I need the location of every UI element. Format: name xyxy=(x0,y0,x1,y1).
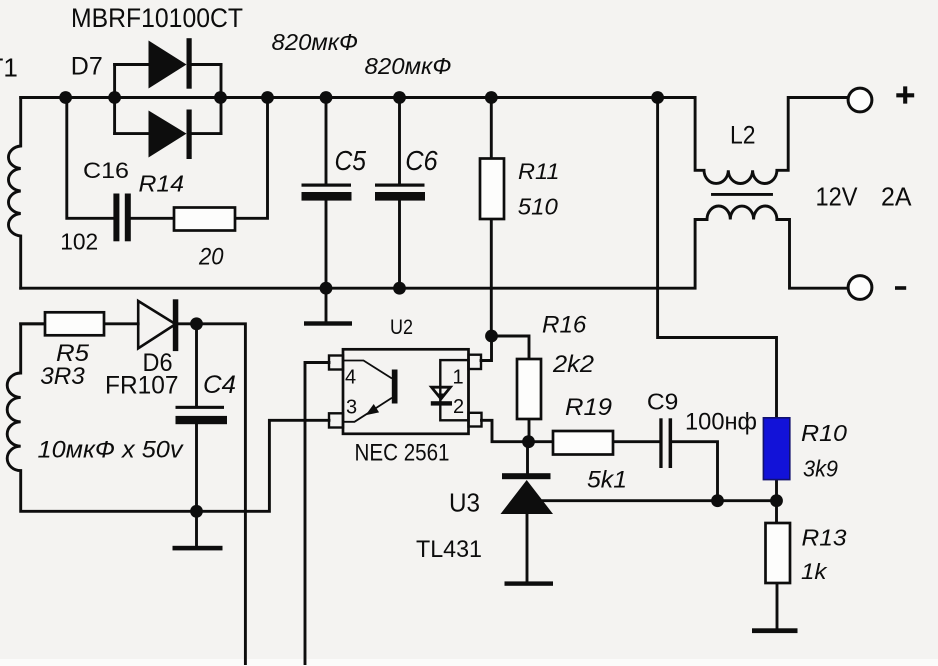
svg-text:NEC 2561: NEC 2561 xyxy=(355,439,450,466)
node bottom rail at C6 xyxy=(393,282,406,295)
node rail at snubber drop xyxy=(59,91,72,104)
svg-text:1k: 1k xyxy=(801,559,828,584)
resistor R10 body blue xyxy=(763,418,789,480)
node rail at R14 return xyxy=(261,91,274,104)
wire R10 bottom to node to R13 top xyxy=(775,479,778,523)
svg-text:R16: R16 xyxy=(542,313,587,339)
resistor R19 body xyxy=(553,431,613,455)
node bottom rail at C5 xyxy=(320,282,333,295)
svg-text:R19: R19 xyxy=(565,395,612,421)
phototransistor base bar xyxy=(392,370,398,404)
capacitor C5 thick plate xyxy=(302,192,352,201)
wire R5 left xyxy=(21,322,45,325)
diode D6 cathode bar xyxy=(173,299,179,351)
svg-text:R13: R13 xyxy=(802,525,847,551)
phototransistor collector line xyxy=(343,361,392,379)
svg-text:R14: R14 xyxy=(139,170,185,196)
svg-text:5k1: 5k1 xyxy=(587,466,627,493)
wire R16 bottom to node xyxy=(528,419,531,442)
minus sign xyxy=(895,286,906,290)
svg-text:10мкФ x 50v: 10мкФ x 50v xyxy=(38,437,185,464)
node R10 R13 divider xyxy=(770,494,783,507)
wire TL431 cathode from node xyxy=(526,442,529,474)
capacitor C16 right plate xyxy=(125,194,131,242)
node opto pin1 / R11 / R16 xyxy=(485,330,498,343)
svg-text:TL431: TL431 xyxy=(416,536,482,563)
phototransistor emitter line xyxy=(343,398,392,422)
svg-text:C16: C16 xyxy=(83,158,129,183)
svg-text:102: 102 xyxy=(60,229,98,255)
LED triangle xyxy=(432,387,451,399)
svg-text:MBRF10100CT: MBRF10100CT xyxy=(71,3,243,33)
svg-text:2k2: 2k2 xyxy=(552,351,594,378)
svg-text:3k9: 3k9 xyxy=(803,456,838,482)
wire D7 bottom diode leads xyxy=(115,132,221,135)
svg-text:C5: C5 xyxy=(335,145,367,176)
wire R5 to D6 xyxy=(104,322,138,325)
output terminal - circle xyxy=(848,276,872,300)
node rail at D7 anodes xyxy=(108,91,121,104)
svg-text:100нф: 100нф xyxy=(685,408,757,435)
node rail at feedback tap xyxy=(651,91,664,104)
optocoupler pin 1 box xyxy=(469,355,482,369)
wire opto pin1 to node xyxy=(481,336,492,361)
wire node to R16 top xyxy=(492,336,530,359)
node D6 cathode xyxy=(190,317,203,330)
optocoupler pin 3 box xyxy=(329,413,343,427)
wire C4 vertical xyxy=(195,324,198,512)
ground under C4 node stub xyxy=(195,511,198,546)
wire TL431 anode to ground xyxy=(526,514,529,581)
wire R14 right up to rail xyxy=(235,98,268,219)
node C4 ground tap xyxy=(190,505,203,518)
wire node to R19 xyxy=(529,440,553,443)
capacitor C4 thick plate xyxy=(176,416,228,424)
node rail at R11 top xyxy=(485,91,498,104)
diode D7 bottom half: triangle xyxy=(149,111,187,158)
svg-text:820мкФ: 820мкФ xyxy=(272,29,359,55)
output terminal + circle xyxy=(848,88,872,112)
svg-text:U2: U2 xyxy=(390,316,413,339)
svg-text:FR107: FR107 xyxy=(105,372,179,400)
wire opto pin4 left and down off page xyxy=(305,363,329,664)
LED triangle dark wedge xyxy=(436,394,446,400)
LED cathode bar xyxy=(431,401,452,405)
wire bottom rail with L2 lower loop to - terminal xyxy=(21,206,847,288)
inductor L2 core line xyxy=(713,193,772,196)
TL431 U3 cathode bar xyxy=(502,473,551,479)
resistor R16 body xyxy=(517,359,541,419)
svg-text:2A: 2A xyxy=(881,182,912,212)
capacitor C6 thin plate xyxy=(375,184,425,187)
wire D7 cathode branch vertical xyxy=(220,65,223,134)
svg-text:1: 1 xyxy=(453,366,464,388)
diode D7 top half: triangle xyxy=(149,41,187,89)
wire R19 to C9 xyxy=(613,440,659,443)
svg-text:2: 2 xyxy=(453,396,464,418)
capacitor C16 left plate xyxy=(113,194,119,242)
wire TL431 ref line to divider node xyxy=(543,499,777,502)
svg-text:12V: 12V xyxy=(816,182,859,212)
svg-text:3: 3 xyxy=(346,397,357,419)
wire D6 cathode to node xyxy=(178,322,196,325)
ground under C5 node stub xyxy=(325,288,328,321)
wire C6 vertical xyxy=(398,98,401,289)
capacitor C6 thick plate xyxy=(375,192,425,201)
ground bar under C4 xyxy=(173,546,223,551)
transformer T1 upper winding xyxy=(8,98,20,289)
wire feedback from + rail node down and over to R10 xyxy=(658,98,777,419)
node rail at D7 cathodes xyxy=(214,91,227,104)
resistor R13 body xyxy=(766,523,791,583)
wire C16 to R14 xyxy=(131,217,175,220)
wire opto pin2 to R16 bottom node xyxy=(482,420,530,441)
svg-text:L2: L2 xyxy=(730,122,756,150)
svg-text:C6: C6 xyxy=(405,145,438,176)
svg-text:4: 4 xyxy=(345,367,356,389)
transformer T1 lower winding with wire to opto pin3 xyxy=(7,324,329,512)
svg-text:510: 510 xyxy=(518,194,558,220)
node R16 bottom / TL431 cathode xyxy=(522,435,535,448)
optocoupler pin 4 box xyxy=(329,356,343,370)
wire D7 top diode leads xyxy=(115,63,221,66)
svg-text:C9: C9 xyxy=(647,388,679,414)
svg-text:820мкФ: 820мкФ xyxy=(365,53,452,79)
node rail at C6 top xyxy=(393,91,406,104)
wire node to corner down off page xyxy=(197,324,246,664)
wire top rail with L2 upper loop to + terminal xyxy=(21,98,847,184)
optocoupler U2 body box xyxy=(343,349,469,434)
svg-text:C4: C4 xyxy=(203,371,236,399)
diode D6 triangle outline xyxy=(138,301,175,348)
wire snubber left drop from node to C16 xyxy=(67,98,114,219)
diode D7 bottom half: cathode bar xyxy=(187,110,192,160)
node rail at C5 top xyxy=(320,91,333,104)
ground bar under C5 node xyxy=(304,321,352,325)
svg-text:3R3: 3R3 xyxy=(40,363,85,390)
capacitor C5 thin plate xyxy=(302,184,352,187)
wire C5 vertical xyxy=(325,98,328,289)
wire R13 bottom to ground xyxy=(776,583,779,628)
svg-text:D7: D7 xyxy=(71,52,103,80)
svg-text:U3: U3 xyxy=(449,488,480,518)
resistor R11 body xyxy=(480,159,504,220)
capacitor C9 right plate xyxy=(669,418,673,468)
wire R11 bottom down to node xyxy=(490,219,493,336)
resistor R5 body xyxy=(45,312,104,335)
optocoupler pin 2 box xyxy=(469,413,482,427)
svg-text:20: 20 xyxy=(198,244,224,271)
phototransistor emitter arrow xyxy=(366,404,380,415)
resistor R14 body xyxy=(174,208,235,231)
optocoupler LED inner box xyxy=(440,360,468,420)
TL431 ground bar xyxy=(505,581,554,585)
capacitor C4 thin plate xyxy=(176,406,225,409)
svg-text:R10: R10 xyxy=(801,420,847,446)
capacitor C9 left plate xyxy=(659,418,662,468)
svg-text:R11: R11 xyxy=(518,159,560,184)
svg-text:Т1: Т1 xyxy=(0,52,18,82)
node C9 to ref line xyxy=(711,494,724,507)
wire R11 from rail xyxy=(490,98,493,159)
wire C9 right to ref node xyxy=(672,442,718,501)
TL431 U3 anode triangle xyxy=(501,480,554,514)
diode D7 top half: cathode bar xyxy=(187,38,192,88)
wire D7 anode branch vertical xyxy=(113,65,116,134)
plus sign xyxy=(896,86,914,103)
ground bar under R13 xyxy=(752,628,798,633)
